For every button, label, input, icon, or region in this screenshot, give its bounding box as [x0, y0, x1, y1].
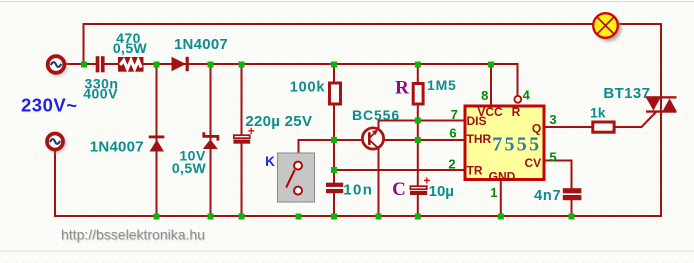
wire switch to THR line: [298, 141, 300, 162]
svg-text:GND: GND: [489, 170, 516, 184]
wire CV pin5 to 4n7: [546, 161, 572, 190]
node 1M5 to pin7: [415, 118, 421, 124]
wire THR pin6 line: [298, 139, 464, 141]
wire right vertical through triac: [660, 23, 662, 217]
node pin2 start: [331, 167, 337, 173]
svg-text:DIS: DIS: [467, 114, 487, 128]
svg-text:THR: THR: [467, 132, 492, 146]
resistor 100k: [330, 83, 341, 104]
node bottom transistor: [376, 214, 382, 220]
wire 100k branch: [333, 64, 335, 83]
node bottom 220u: [239, 214, 245, 220]
resistor 470 0,5W: [118, 57, 144, 72]
svg-text:7: 7: [451, 107, 458, 122]
diode D2 1N4007: [149, 136, 165, 152]
svg-text:8: 8: [481, 88, 488, 103]
wire lamp to right corner: [618, 23, 662, 25]
wire TR pin2 line: [334, 169, 464, 171]
node bottom switch: [296, 214, 302, 220]
svg-text:http://bsselektronika.hu: http://bsselektronika.hu: [61, 227, 205, 243]
node bottom zener: [208, 214, 214, 220]
wire 220u branch: [241, 64, 243, 136]
capacitor 220u 25V electrolytic: [233, 126, 254, 144]
node zener top: [208, 62, 214, 68]
svg-text:4: 4: [523, 87, 531, 102]
lamp: [593, 13, 621, 41]
node 1M5 top: [415, 62, 421, 68]
wire GND pin1 drop: [500, 181, 502, 216]
node bottom 4n7: [569, 214, 575, 220]
svg-text:10µ: 10µ: [429, 183, 454, 200]
svg-text:CV: CV: [524, 156, 541, 170]
svg-text:400V: 400V: [83, 85, 118, 101]
node vcc top: [488, 62, 494, 68]
resistor R 1M5: [413, 84, 423, 105]
wire left vertical from top rail: [83, 23, 85, 65]
svg-text:10n: 10n: [343, 182, 373, 199]
diode D1 1N4007: [172, 57, 189, 71]
op-amp U1 7555 body: [465, 105, 544, 184]
wire transistor emitter down: [378, 148, 380, 216]
svg-text:TR: TR: [467, 164, 483, 178]
wire main rail: [84, 63, 97, 65]
svg-text:3: 3: [549, 112, 556, 127]
svg-text:R: R: [512, 105, 521, 119]
relay contact K: [278, 153, 315, 202]
triac BT137: [646, 96, 677, 113]
node 100k to pin6: [331, 137, 337, 143]
wire AC terminal 1 to junction: [64, 63, 84, 65]
svg-text:5: 5: [549, 149, 556, 164]
svg-text:R: R: [395, 77, 409, 98]
capacitor C 10u electrolytic: [410, 175, 430, 195]
svg-text:6: 6: [449, 126, 456, 141]
node bottom gnd: [498, 214, 504, 220]
wire bottom rail: [55, 215, 662, 217]
resistor 1k: [593, 122, 614, 132]
wire DIS pin7 line: [379, 120, 464, 122]
svg-text:1M5: 1M5: [427, 77, 457, 93]
wire top rail: [84, 23, 594, 25]
AC terminal 2: [47, 133, 66, 152]
wire rectifier diode branch: [156, 64, 158, 216]
wire Q pin3 to 1k: [546, 126, 593, 128]
svg-text:0,5W: 0,5W: [172, 160, 207, 176]
svg-text:1N4007: 1N4007: [90, 138, 144, 155]
reset pin bubble: [514, 96, 521, 103]
svg-text:7555: 7555: [492, 134, 541, 156]
zener diode 10V 0,5W: [203, 132, 218, 149]
transistor Q1 BC556: [362, 128, 383, 149]
wire AC terminal 2 down to bottom rail: [54, 150, 56, 217]
node 1M5 to pin6: [415, 137, 421, 143]
wire 1k to triac gate: [615, 126, 642, 128]
node 220u top: [239, 62, 245, 68]
svg-text:4n7: 4n7: [534, 188, 561, 204]
svg-text:1: 1: [490, 185, 497, 200]
node 100k top: [331, 62, 337, 68]
svg-text:2: 2: [448, 157, 455, 172]
capacitor 10n: [326, 183, 343, 194]
wire zener branch: [210, 64, 212, 216]
svg-text:1k: 1k: [590, 105, 606, 121]
AC terminal 1: [48, 56, 68, 76]
node bottom 10u: [415, 214, 421, 220]
svg-text:C: C: [392, 179, 406, 200]
svg-text:220µ 25V: 220µ 25V: [245, 113, 312, 130]
node after 470: [154, 62, 160, 68]
capacitor 4n7: [563, 188, 582, 200]
wire 1M5 branch: [417, 64, 419, 84]
svg-text:1N4007: 1N4007: [174, 36, 228, 53]
wire pin8 vcc drop: [490, 64, 492, 105]
svg-text:230V~: 230V~: [21, 95, 78, 116]
wire transistor top to pin7 line: [378, 120, 380, 130]
svg-text:K: K: [265, 154, 275, 169]
svg-text:BC556: BC556: [352, 107, 400, 123]
node bottom 10n: [331, 214, 337, 220]
node main rail left: [81, 62, 87, 68]
capacitor 330n: [96, 56, 100, 72]
svg-text:BT137: BT137: [603, 85, 650, 102]
svg-text:0,5W: 0,5W: [113, 40, 148, 56]
svg-text:100k: 100k: [290, 79, 326, 95]
wire pin4 reset drop: [517, 63, 519, 96]
node bottom diode: [154, 214, 160, 220]
